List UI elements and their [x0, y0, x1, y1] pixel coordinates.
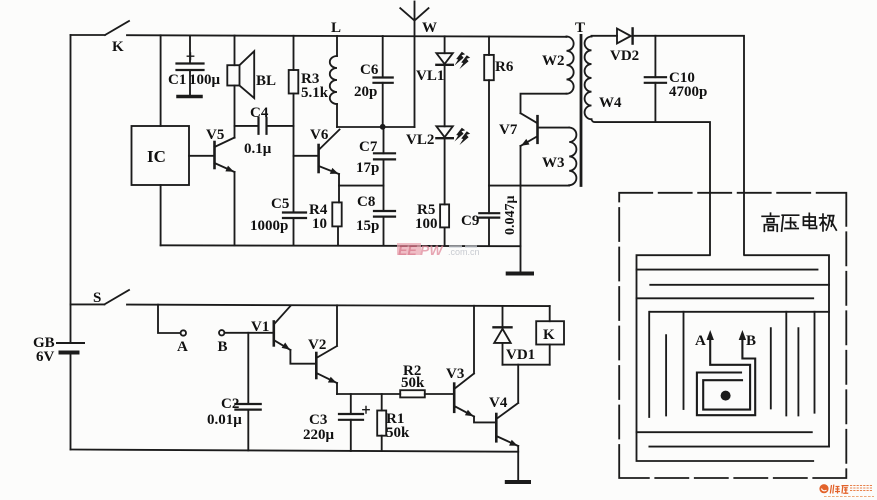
svg-text:20p: 20p — [354, 84, 377, 100]
svg-text:K: K — [112, 39, 124, 55]
svg-text:V5: V5 — [206, 127, 224, 143]
svg-text:B: B — [218, 339, 228, 355]
svg-text:10: 10 — [312, 216, 327, 232]
svg-text:BL: BL — [256, 73, 276, 89]
svg-text:R6: R6 — [495, 59, 514, 75]
svg-text:50k: 50k — [386, 425, 410, 441]
svg-text:50k: 50k — [401, 375, 425, 391]
svg-text:6V: 6V — [36, 349, 55, 365]
svg-text:15p: 15p — [356, 218, 379, 234]
svg-text:V2: V2 — [308, 337, 326, 353]
svg-text:0.1μ: 0.1μ — [244, 141, 272, 157]
svg-text:0.047μ: 0.047μ — [503, 196, 518, 236]
svg-text:C2: C2 — [221, 396, 239, 412]
svg-text:PW: PW — [420, 242, 444, 258]
svg-text:B: B — [746, 333, 756, 349]
svg-text:4700p: 4700p — [669, 84, 707, 100]
svg-text:W2: W2 — [542, 53, 565, 69]
svg-text:C4: C4 — [250, 105, 269, 121]
svg-text:IC: IC — [147, 147, 166, 166]
svg-text:17p: 17p — [356, 160, 379, 176]
svg-text:V6: V6 — [310, 127, 329, 143]
svg-text:V4: V4 — [489, 395, 508, 411]
svg-text:C8: C8 — [357, 194, 375, 210]
svg-text:A: A — [177, 339, 188, 355]
svg-text:C5: C5 — [271, 196, 289, 212]
svg-text:V7: V7 — [499, 122, 518, 138]
svg-text:V1: V1 — [251, 319, 269, 335]
svg-text:VD1: VD1 — [506, 347, 535, 363]
svg-text:.com.cn: .com.cn — [448, 247, 480, 257]
svg-text:100μ: 100μ — [189, 72, 221, 88]
svg-text:VD2: VD2 — [610, 48, 639, 64]
svg-text:VL2: VL2 — [406, 132, 434, 148]
svg-text:5.1k: 5.1k — [301, 85, 329, 101]
svg-text:VL1: VL1 — [416, 68, 444, 84]
svg-text:100: 100 — [415, 216, 438, 232]
svg-text:K: K — [543, 327, 555, 343]
svg-text:W: W — [422, 20, 437, 36]
svg-text:L: L — [331, 20, 341, 36]
svg-text:C6: C6 — [360, 62, 379, 78]
svg-text:S: S — [93, 290, 101, 306]
svg-text:C3: C3 — [309, 412, 327, 428]
svg-text:1000p: 1000p — [250, 218, 288, 234]
svg-text:C7: C7 — [359, 139, 378, 155]
svg-text:V3: V3 — [446, 366, 464, 382]
svg-text:W3: W3 — [542, 155, 565, 171]
svg-text:EE: EE — [398, 242, 417, 258]
svg-text:T: T — [575, 20, 585, 36]
svg-text:C1: C1 — [168, 72, 186, 88]
svg-text:C9: C9 — [461, 213, 479, 229]
svg-text:0.01μ: 0.01μ — [207, 412, 242, 428]
svg-text:W4: W4 — [599, 95, 622, 111]
svg-text:220μ: 220μ — [303, 427, 335, 443]
svg-text:A: A — [695, 333, 706, 349]
